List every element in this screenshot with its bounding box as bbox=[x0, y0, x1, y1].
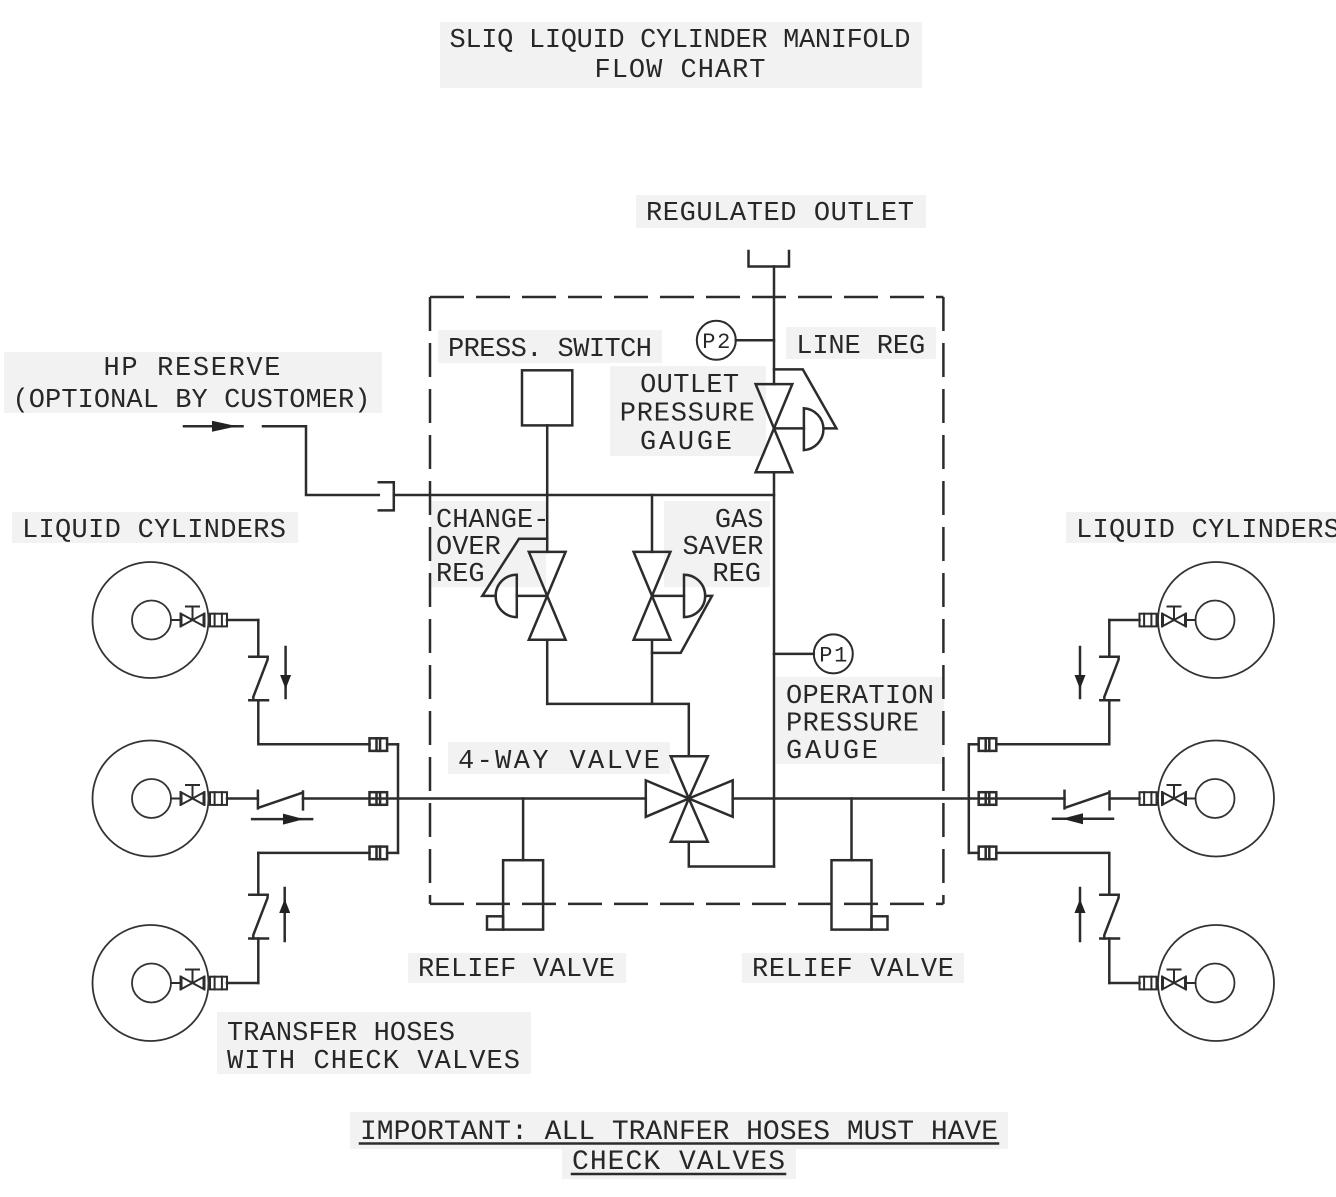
flow arrow up right bottom bbox=[1075, 888, 1086, 941]
underline note line 2 bbox=[572, 1173, 785, 1176]
svg-text:GAS: GAS bbox=[715, 506, 764, 536]
pressure switch PS1 bbox=[522, 370, 572, 425]
svg-text:RELIEF VALVE: RELIEF VALVE bbox=[418, 955, 615, 985]
svg-text:RELIEF VALVE: RELIEF VALVE bbox=[752, 955, 954, 985]
union right top bbox=[979, 738, 997, 751]
regulated outlet terminal symbol bbox=[749, 251, 790, 267]
wire HP reserve inlet with flow arrow bbox=[184, 421, 379, 495]
svg-text:LINE REG: LINE REG bbox=[796, 332, 925, 362]
flow arrow down left top bbox=[280, 647, 291, 698]
wire P1 to pipe bbox=[774, 653, 814, 656]
cylinder left bottom bbox=[93, 925, 259, 1041]
wire main manifold line center-right bbox=[733, 797, 1065, 800]
label OUTLET PRESSURE GAUGE bbox=[620, 371, 755, 458]
svg-text:P2: P2 bbox=[702, 330, 730, 355]
dashed manifold enclosure left bbox=[429, 297, 432, 904]
dashed manifold enclosure right bbox=[942, 297, 945, 904]
wire gas saver outlet drop bbox=[651, 640, 654, 704]
svg-text:OUTLET: OUTLET bbox=[640, 371, 739, 401]
svg-text:CHANGE-: CHANGE- bbox=[436, 506, 549, 536]
flow arrow up left bottom bbox=[279, 888, 290, 941]
union right middle bbox=[979, 792, 997, 805]
wire right bottom branch upper bbox=[996, 853, 1109, 895]
svg-text:4-WAY VALVE: 4-WAY VALVE bbox=[458, 747, 660, 777]
svg-text:PRESSURE: PRESSURE bbox=[620, 400, 755, 430]
wire changeover feed drop bbox=[546, 495, 549, 552]
svg-text:REG: REG bbox=[712, 560, 761, 590]
flow arrow right left middle bbox=[252, 814, 312, 825]
wire line reg to manifold drop bbox=[773, 472, 776, 866]
svg-text:LIQUID CYLINDERS: LIQUID CYLINDERS bbox=[1076, 516, 1336, 546]
svg-text:GAUGE: GAUGE bbox=[640, 428, 732, 458]
svg-text:P1: P1 bbox=[819, 644, 847, 669]
underline note line 1 bbox=[360, 1142, 998, 1145]
cylinder left middle bbox=[93, 741, 258, 857]
svg-text:OPERATION: OPERATION bbox=[786, 682, 934, 712]
relief valve RV2 feed bbox=[850, 799, 853, 861]
svg-text:OVER: OVER bbox=[436, 533, 501, 563]
regulator GAS SAVER REG valve body bbox=[634, 552, 712, 653]
cylinder right top bbox=[1109, 562, 1274, 678]
gauge P2 circle bbox=[697, 321, 736, 360]
svg-text:REGULATED OUTLET: REGULATED OUTLET bbox=[646, 199, 914, 229]
manifold trunk right bbox=[969, 744, 979, 853]
svg-text:REG: REG bbox=[436, 560, 485, 590]
hose H5 horizontal right middle bbox=[1065, 791, 1110, 810]
svg-text:WITH CHECK VALVES: WITH CHECK VALVES bbox=[227, 1047, 520, 1077]
manifold trunk left bbox=[387, 744, 398, 853]
svg-text:LIQUID CYLINDERS: LIQUID CYLINDERS bbox=[22, 516, 286, 546]
svg-text:HP RESERVE: HP RESERVE bbox=[104, 354, 281, 384]
wire left bottom branch lower bbox=[257, 939, 260, 984]
svg-text:PRESSURE: PRESSURE bbox=[786, 710, 919, 740]
wire press switch drop bbox=[546, 425, 549, 495]
gauge P1 circle bbox=[814, 634, 853, 673]
wire changeover outlet drop bbox=[546, 640, 549, 704]
union left bottom bbox=[370, 847, 388, 860]
svg-text:FLOW CHART: FLOW CHART bbox=[595, 56, 766, 86]
flow arrow down right top bbox=[1075, 647, 1086, 698]
label OPERATION PRESSURE GAUGE bbox=[786, 682, 934, 767]
wire right top branch lower bbox=[996, 700, 1109, 744]
wire gas saver feed drop bbox=[651, 495, 654, 552]
relief valve RV1 feed bbox=[522, 799, 525, 861]
svg-text:SAVER: SAVER bbox=[682, 533, 763, 563]
hose H1 vertical bbox=[249, 657, 268, 701]
relief valve RV2 bbox=[832, 860, 888, 929]
wire left top branch bbox=[257, 620, 260, 657]
label GAS SAVER REG bbox=[682, 506, 763, 590]
cylinder left top bbox=[93, 562, 259, 678]
hose H2 horizontal left middle bbox=[258, 791, 303, 810]
label TRANSFER HOSES WITH CHECK VALVES bbox=[227, 1019, 520, 1077]
union right bottom bbox=[979, 847, 997, 860]
svg-text:PRESS. SWITCH: PRESS. SWITCH bbox=[448, 335, 652, 365]
valve V1 4-way bbox=[646, 756, 733, 842]
wire regulator feed header bbox=[394, 494, 774, 497]
regulator LINE REG valve body bbox=[756, 369, 837, 472]
hose H3 vertical bbox=[249, 895, 268, 939]
wire right bottom branch lower bbox=[1108, 939, 1111, 984]
label CHANGE-OVER REG bbox=[436, 506, 549, 590]
svg-text:(OPTIONAL BY CUSTOMER): (OPTIONAL BY CUSTOMER) bbox=[13, 386, 371, 416]
union left top bbox=[370, 738, 388, 751]
connector bracket on HP line bbox=[379, 482, 394, 510]
wire P2 to pipe bbox=[736, 339, 774, 342]
wire right top branch bbox=[1108, 620, 1111, 657]
dashed manifold enclosure top bbox=[430, 296, 943, 299]
cylinder right bottom bbox=[1109, 925, 1274, 1041]
union left middle bbox=[370, 792, 388, 805]
dashed manifold enclosure bottom bbox=[430, 903, 943, 906]
regulator CHANGE-OVER REG valve body bbox=[482, 539, 565, 640]
wire left top branch lower bbox=[258, 700, 369, 744]
svg-text:SLIQ LIQUID CYLINDER MANIFOLD: SLIQ LIQUID CYLINDER MANIFOLD bbox=[450, 26, 911, 56]
svg-text:GAUGE: GAUGE bbox=[786, 737, 878, 767]
wire regulator outlet header to 4-way valve bbox=[547, 704, 689, 756]
wire 4-way valve bottom loop bbox=[689, 842, 774, 867]
wire regulated outlet pipe (top) bbox=[773, 267, 776, 385]
cylinder right middle bbox=[1110, 741, 1275, 857]
wire left bottom branch upper bbox=[258, 852, 369, 855]
flow arrow left right middle bbox=[1053, 813, 1113, 824]
wire main manifold line center-left bbox=[303, 797, 646, 800]
hose H6 vertical bbox=[1100, 895, 1119, 939]
hose H4 vertical bbox=[1100, 657, 1119, 701]
svg-text:TRANSFER HOSES: TRANSFER HOSES bbox=[227, 1019, 455, 1049]
relief valve RV1 bbox=[487, 860, 543, 929]
